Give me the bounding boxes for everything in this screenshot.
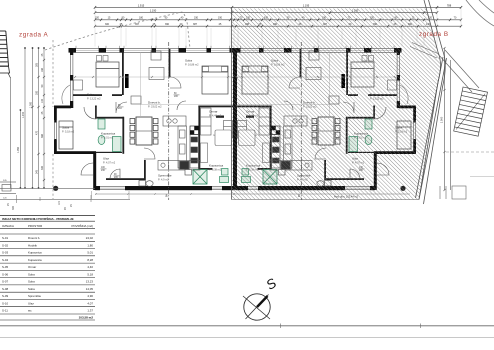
staircase right bbox=[454, 87, 488, 136]
svg-text:168: 168 bbox=[41, 67, 44, 72]
table row S-09 bbox=[2, 294, 93, 298]
svg-text:Hod. dim. 102,44 m2: Hod. dim. 102,44 m2 bbox=[334, 195, 359, 199]
interior dim lines bbox=[75, 52, 233, 116]
door arcs bbox=[81, 77, 222, 179]
svg-text:P: 33,02 m2: P: 33,02 m2 bbox=[148, 106, 162, 109]
room labels building B bbox=[370, 93, 384, 101]
site dot A bbox=[53, 186, 58, 191]
building plan walls+furniture group bbox=[54, 46, 236, 190]
bed bedroom2 bbox=[202, 66, 228, 94]
svg-text:P: 8,38 m2: P: 8,38 m2 bbox=[209, 169, 222, 172]
svg-text:115: 115 bbox=[58, 201, 61, 205]
laundry counter band bbox=[158, 161, 200, 171]
svg-text:330: 330 bbox=[194, 17, 199, 20]
svg-text:180: 180 bbox=[139, 17, 144, 20]
wall top exterior bbox=[69, 46, 235, 53]
svg-text:300: 300 bbox=[105, 23, 110, 26]
svg-text:Ormar: Ormar bbox=[209, 110, 218, 114]
wall left exterior bbox=[62, 48, 73, 108]
compass north symbol bbox=[243, 275, 279, 320]
svg-text:4,90: 4,90 bbox=[87, 294, 93, 298]
stove checker bbox=[190, 126, 199, 135]
svg-text:ISKAZ NETO KORISNIH POVRŠINA -: ISKAZ NETO KORISNIH POVRŠINA - PRIZEMLJE bbox=[2, 216, 74, 221]
left dim stack cluster bbox=[0, 182, 16, 194]
wing walls bbox=[54, 106, 96, 191]
svg-text:Hodnik: Hodnik bbox=[28, 243, 38, 247]
right vertical dimension line 1.000 bbox=[443, 47, 450, 191]
svg-text:Spremište: Spremište bbox=[28, 294, 41, 298]
table row S-11 bbox=[2, 309, 93, 313]
site boundary line 1 bbox=[0, 325, 494, 327]
svg-text:13,23: 13,23 bbox=[86, 280, 94, 284]
lower dim line bbox=[0, 198, 130, 200]
bathroom 2 green fixtures bbox=[220, 169, 229, 183]
svg-text:S-07: S-07 bbox=[2, 280, 8, 284]
dashed line right bbox=[446, 151, 494, 153]
svg-text:P: 5,01 m2: P: 5,01 m2 bbox=[101, 137, 114, 140]
svg-text:397: 397 bbox=[135, 23, 140, 26]
dashed parcel line left bbox=[52, 40, 54, 107]
svg-text:P: 16,86 m2: P: 16,86 m2 bbox=[185, 64, 199, 67]
svg-text:8: 8 bbox=[166, 194, 168, 198]
svg-text:300: 300 bbox=[35, 90, 38, 95]
svg-text:S-10: S-10 bbox=[2, 301, 8, 305]
svg-text:4,40: 4,40 bbox=[87, 265, 93, 269]
svg-text:390: 390 bbox=[12, 205, 15, 210]
bed wing room bbox=[59, 121, 73, 149]
dining table with chairs bbox=[130, 117, 158, 145]
svg-text:S-01: S-01 bbox=[2, 236, 8, 240]
svg-text:S-09: S-09 bbox=[2, 294, 8, 298]
svg-text:Soba: Soba bbox=[62, 126, 69, 130]
dimension chain line 4 (wall segments) bbox=[94, 25, 462, 28]
table row S-05 bbox=[2, 265, 93, 269]
svg-text:Kupaonica: Kupaonica bbox=[209, 164, 224, 168]
svg-text:S-08: S-08 bbox=[2, 287, 8, 291]
svg-text:P: 5,18 m2: P: 5,18 m2 bbox=[62, 131, 75, 134]
room labels building A bbox=[87, 93, 101, 101]
left vertical dimension chains bbox=[20, 47, 46, 189]
svg-text:Soba: Soba bbox=[28, 287, 35, 291]
svg-text:14,05: 14,05 bbox=[86, 287, 94, 291]
svg-text:1,80: 1,80 bbox=[87, 243, 93, 247]
table row S-03 bbox=[2, 251, 93, 255]
svg-text:470: 470 bbox=[35, 130, 38, 135]
sofa living bbox=[131, 51, 164, 104]
svg-text:390: 390 bbox=[165, 23, 170, 26]
svg-text:Spremište: Spremište bbox=[158, 174, 172, 178]
shower square bbox=[193, 170, 207, 185]
dimension chain line 2 (1.190) bbox=[94, 11, 438, 14]
building B mirrored copy bbox=[234, 46, 416, 190]
wall bottom exterior bbox=[95, 186, 235, 190]
table row S-01 bbox=[2, 236, 93, 240]
table row S-04 bbox=[2, 258, 93, 262]
table grid lines bbox=[0, 234, 95, 314]
svg-text:Dnevni b.: Dnevni b. bbox=[28, 236, 40, 240]
svg-text:Soba: Soba bbox=[87, 93, 94, 97]
wardrobe row bbox=[201, 108, 212, 135]
svg-text:S-11: S-11 bbox=[2, 309, 8, 313]
svg-text:1.195: 1.195 bbox=[303, 3, 310, 7]
svg-text:1.915: 1.915 bbox=[22, 111, 25, 118]
interior partition walls bbox=[73, 49, 234, 180]
svg-text:Kupaonica: Kupaonica bbox=[101, 132, 116, 136]
svg-text:POVRŠINA (m2): POVRŠINA (m2) bbox=[71, 223, 93, 228]
svg-text:Soba: Soba bbox=[28, 272, 35, 276]
table title box bbox=[0, 214, 95, 216]
site dot B bbox=[400, 186, 405, 191]
table row S-10 bbox=[2, 301, 93, 305]
svg-text:4,07: 4,07 bbox=[87, 301, 93, 305]
kitchen tall unit bbox=[190, 135, 199, 169]
svg-text:387: 387 bbox=[193, 23, 198, 26]
svg-text:1.915: 1.915 bbox=[138, 3, 145, 7]
svg-text:1.000: 1.000 bbox=[29, 101, 32, 108]
svg-text:190: 190 bbox=[218, 17, 223, 20]
dimension chain line 1 (overall 1.915) bbox=[94, 6, 462, 9]
svg-text:1,37: 1,37 bbox=[87, 309, 93, 313]
bottom-right dim cluster bbox=[440, 186, 466, 199]
svg-text:788: 788 bbox=[447, 3, 452, 7]
table row S-07 bbox=[2, 280, 93, 284]
svg-text:345: 345 bbox=[35, 169, 38, 174]
svg-text:393: 393 bbox=[35, 62, 38, 67]
hatch boundary lines bbox=[232, 0, 447, 204]
wc fixtures near entry bbox=[139, 170, 192, 187]
svg-text:Kupaonica: Kupaonica bbox=[28, 251, 42, 255]
svg-text:368: 368 bbox=[41, 133, 44, 138]
svg-text:Ulaz: Ulaz bbox=[28, 301, 34, 305]
hatch region over building B bbox=[232, 9, 441, 200]
svg-text:1.050: 1.050 bbox=[17, 146, 20, 153]
cabinet at party wall bbox=[224, 121, 233, 139]
svg-text:1.000: 1.000 bbox=[440, 116, 444, 123]
tiny door dimension texts A bbox=[101, 93, 180, 179]
svg-text:OZNAKA: OZNAKA bbox=[2, 224, 14, 228]
svg-text:zgrada A: zgrada A bbox=[19, 32, 49, 39]
site boundary line left bbox=[10, 78, 12, 188]
porch dim line bbox=[0, 187, 95, 189]
party wall bbox=[233, 48, 236, 190]
svg-text:S-06: S-06 bbox=[2, 272, 8, 276]
bed bedroom1 bbox=[74, 56, 120, 91]
table row S-06 bbox=[2, 272, 93, 276]
svg-text:5,01: 5,01 bbox=[87, 251, 93, 255]
kerb curves top right bbox=[466, 0, 494, 26]
svg-text:1.190: 1.190 bbox=[150, 9, 157, 13]
svg-text:P: 4,40 m2: P: 4,40 m2 bbox=[209, 115, 222, 118]
dashed terrain curve bbox=[45, 12, 190, 50]
svg-text:140: 140 bbox=[41, 98, 44, 103]
svg-text:S-03: S-03 bbox=[2, 251, 8, 255]
section cut line B bbox=[300, 42, 302, 200]
svg-text:Soba: Soba bbox=[185, 59, 192, 63]
svg-text:P: 13,22 m2: P: 13,22 m2 bbox=[87, 98, 101, 101]
svg-text:P: 4,07 m2: P: 4,07 m2 bbox=[103, 162, 116, 165]
svg-text:zgrada B: zgrada B bbox=[419, 31, 449, 38]
table row S-08 bbox=[2, 287, 93, 291]
svg-text:Ormar: Ormar bbox=[28, 265, 36, 269]
svg-text:Ulaz: Ulaz bbox=[103, 157, 110, 161]
dimension chain line 3 (room widths) bbox=[94, 19, 462, 22]
svg-text:Kupaonica: Kupaonica bbox=[28, 258, 42, 262]
svg-text:Soba: Soba bbox=[28, 280, 35, 284]
bathroom 1 fixtures bbox=[98, 119, 121, 152]
svg-text:300: 300 bbox=[41, 165, 44, 170]
hall wall stub bbox=[216, 116, 224, 118]
svg-text:Dnevni b.: Dnevni b. bbox=[148, 101, 161, 105]
svg-text:P: 4,9 m2: P: 4,9 m2 bbox=[158, 179, 169, 182]
area table bbox=[0, 215, 95, 320]
svg-text:8,28: 8,28 bbox=[87, 258, 93, 262]
svg-text:wc: wc bbox=[28, 309, 32, 313]
section cut line A bbox=[168, 42, 170, 200]
site stair detail top-left bbox=[0, 31, 11, 78]
svg-text:S-05: S-05 bbox=[2, 265, 8, 269]
bathroom 2 fixtures bbox=[201, 130, 232, 163]
table row S-02 bbox=[2, 243, 93, 247]
kitchen counters bbox=[163, 116, 187, 168]
site boundary line 2 bbox=[0, 337, 494, 339]
svg-text:5,18: 5,18 bbox=[87, 272, 93, 276]
dimension extension lines down to building bbox=[95, 8, 461, 47]
svg-text:24,02: 24,02 bbox=[86, 236, 94, 240]
walkway band upper bbox=[410, 43, 439, 59]
walkway band to stairs bbox=[438, 50, 479, 92]
svg-text:S-02: S-02 bbox=[2, 243, 8, 247]
svg-text:S-04: S-04 bbox=[2, 258, 8, 262]
under-building dim line bbox=[95, 193, 410, 195]
svg-text:PROSTOR: PROSTOR bbox=[28, 224, 42, 228]
svg-text:320: 320 bbox=[95, 17, 100, 20]
svg-text:103,58 m2: 103,58 m2 bbox=[79, 316, 94, 320]
